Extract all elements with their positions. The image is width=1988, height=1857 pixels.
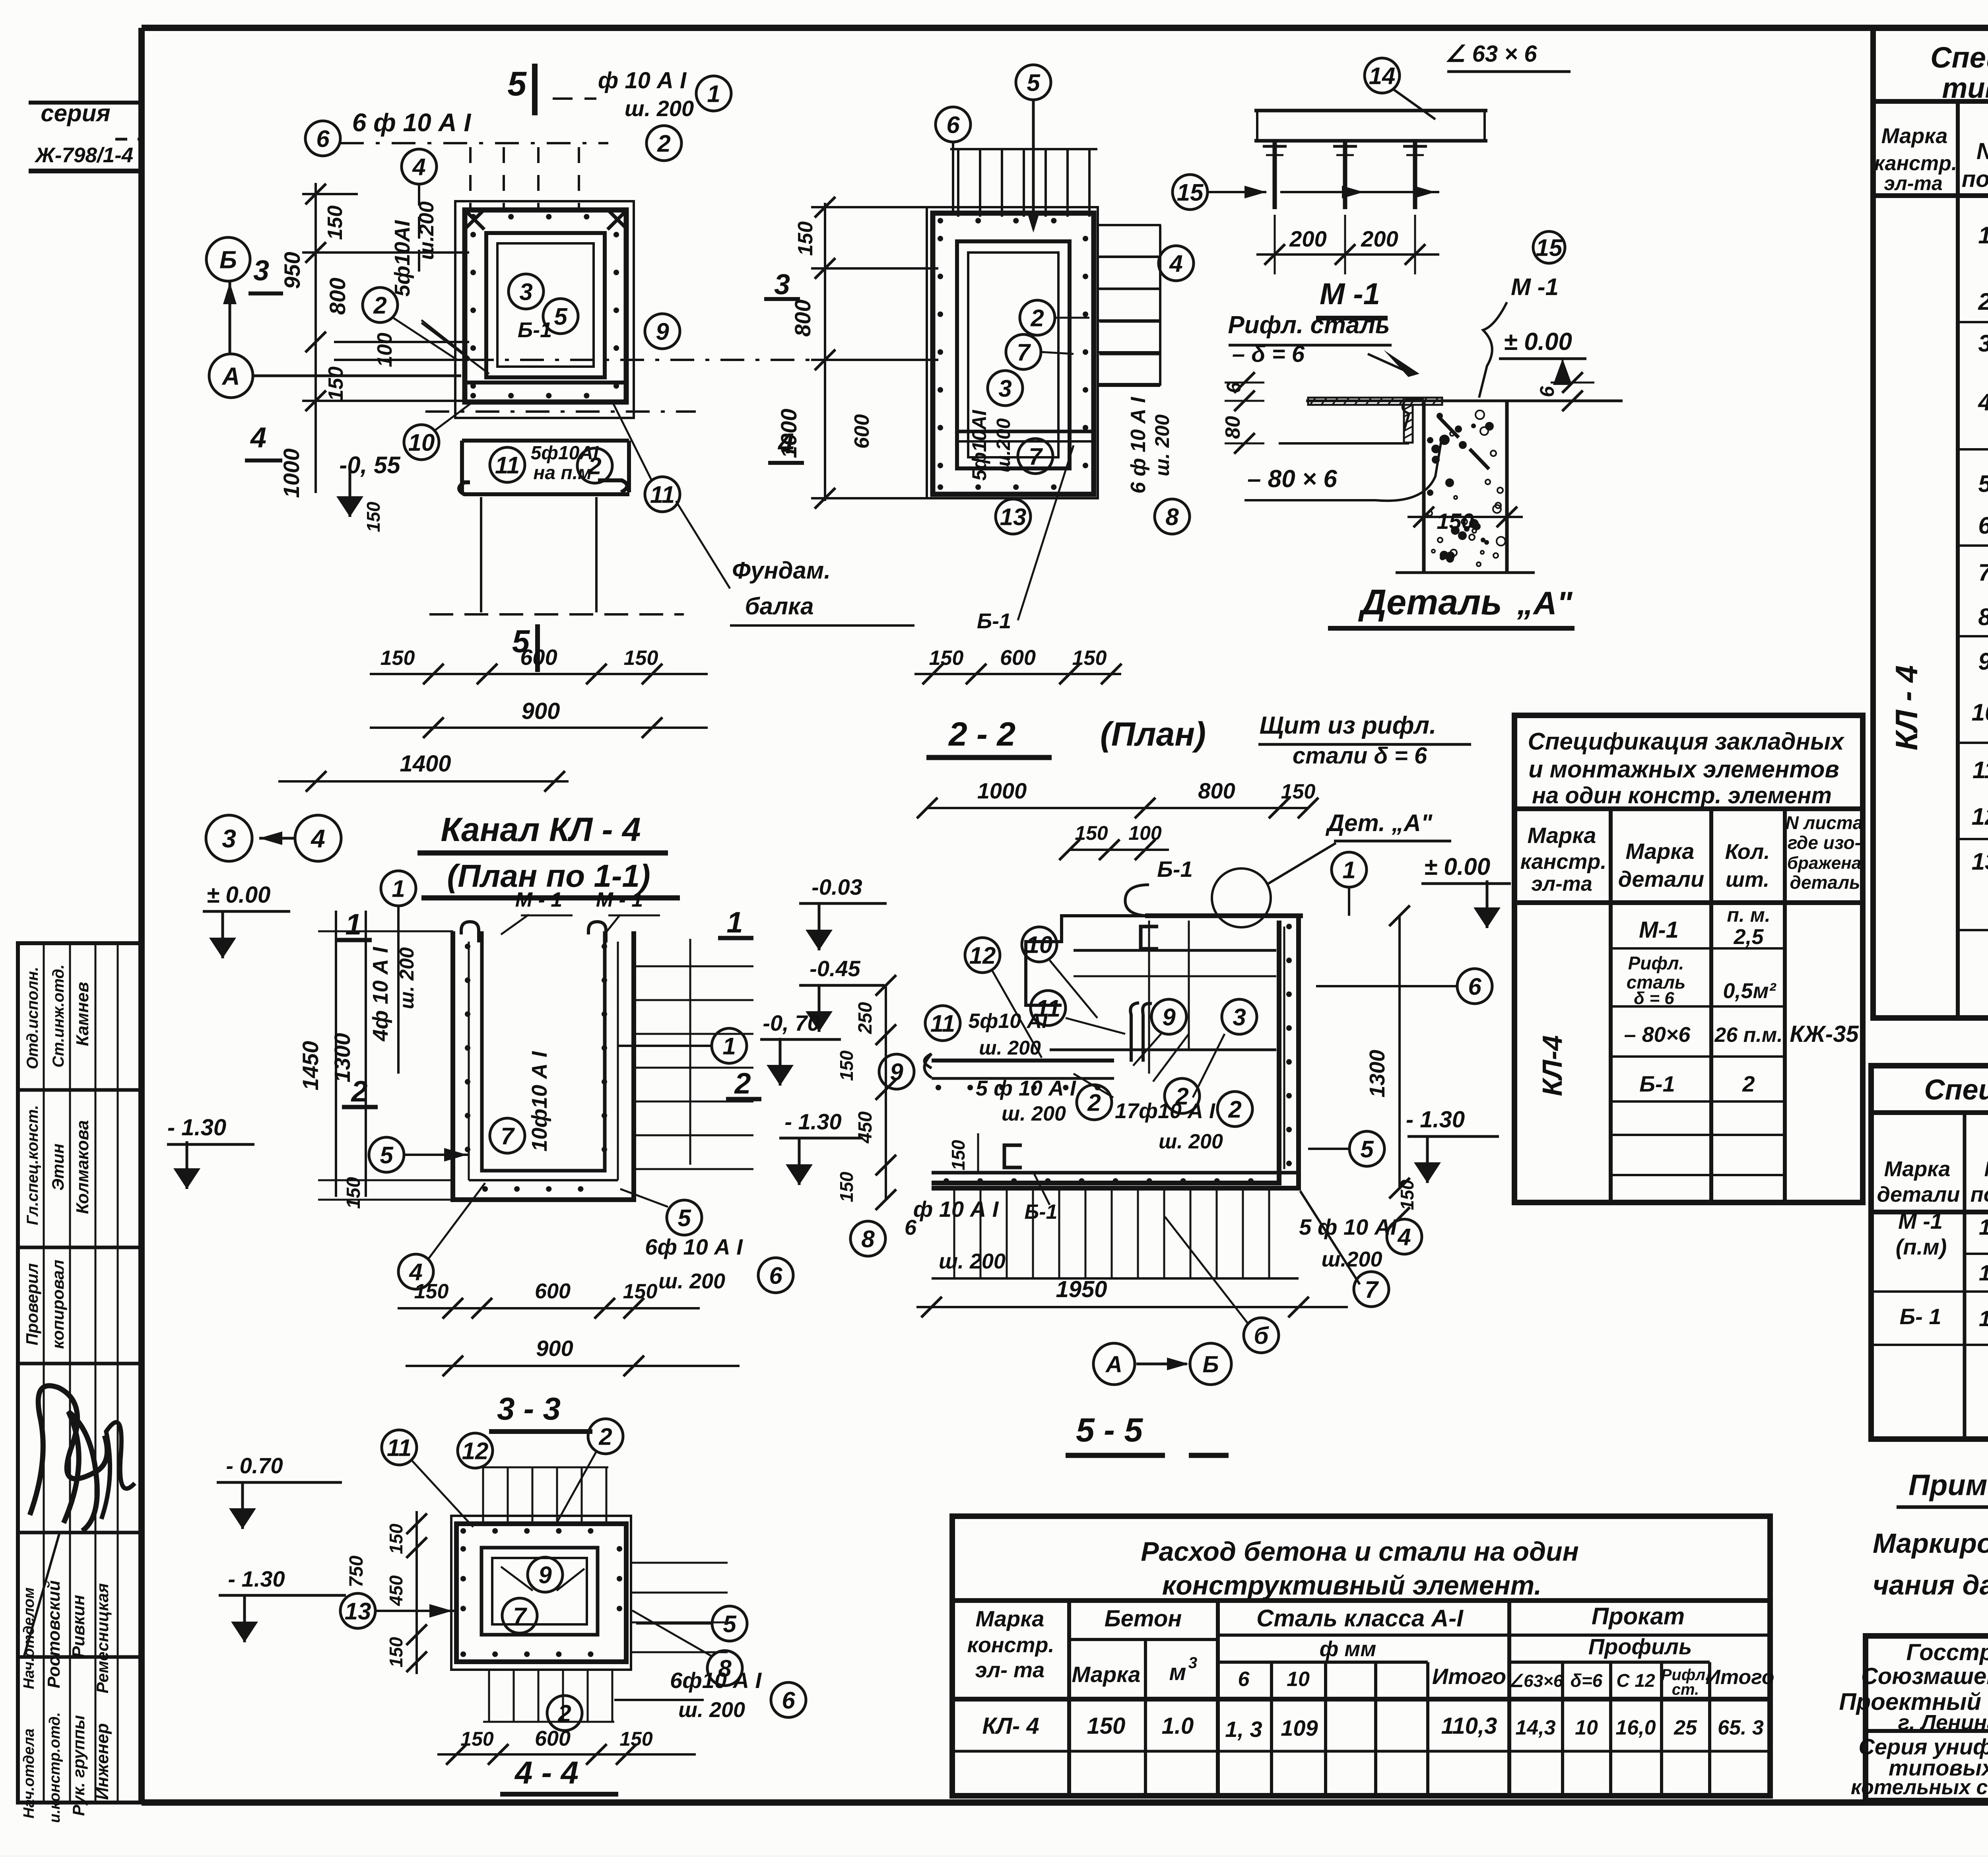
svg-text:– 80×6: – 80×6 bbox=[1624, 1023, 1691, 1047]
svg-text:КЛ- 4: КЛ- 4 bbox=[982, 1713, 1039, 1739]
M1 dims 200 200 bbox=[1256, 253, 1439, 256]
svg-text:200: 200 bbox=[1361, 226, 1398, 251]
svg-text:Проверил: Проверил bbox=[23, 1263, 41, 1346]
left margin series label bbox=[29, 101, 142, 105]
comb above box bbox=[482, 1467, 484, 1523]
svg-text:на один констр. элемент: на один констр. элемент bbox=[1532, 783, 1832, 808]
svg-text:Канал КЛ - 4: Канал КЛ - 4 bbox=[441, 811, 641, 848]
svg-text:Союзмашетройпроект,: Союзмашетройпроект, bbox=[1861, 1663, 1988, 1689]
svg-text:Б- 1: Б- 1 bbox=[1900, 1304, 1941, 1329]
svg-text:Б-1: Б-1 bbox=[1639, 1071, 1675, 1096]
svg-text:5ф10АI: 5ф10АI bbox=[390, 220, 414, 297]
svg-text:чания даны на листах КЖ -: чания даны на листах КЖ - 3, 4, 5 bbox=[1873, 1570, 1988, 1601]
svg-text:2: 2 bbox=[588, 453, 601, 480]
svg-text:7: 7 bbox=[1978, 559, 1988, 586]
svg-text:δ = 6: δ = 6 bbox=[1634, 989, 1674, 1008]
svg-text:6: 6 bbox=[316, 126, 330, 152]
svg-text:3: 3 bbox=[1233, 1004, 1246, 1031]
svg-text:Прокат: Прокат bbox=[1592, 1603, 1685, 1630]
svg-text:Госстрой СССР: Госстрой СССР bbox=[1906, 1639, 1988, 1665]
svg-text:5: 5 bbox=[723, 1611, 737, 1638]
svg-text:Спецификация стали на один: Спецификация стали на один конструк- bbox=[1930, 41, 1988, 74]
svg-text:Марка: Марка bbox=[976, 1606, 1044, 1631]
svg-text:Этин: Этин bbox=[49, 1144, 67, 1191]
svg-text:(п.м): (п.м) bbox=[1896, 1234, 1947, 1259]
svg-text:150: 150 bbox=[836, 1171, 857, 1202]
svg-text:12: 12 bbox=[969, 942, 996, 969]
svg-text:1: 1 bbox=[707, 81, 720, 107]
svg-text:δ=6: δ=6 bbox=[1571, 1670, 1603, 1691]
concrete pier with texture bbox=[1424, 401, 1507, 573]
svg-text:детали: детали bbox=[1618, 866, 1704, 892]
svg-text:1: 1 bbox=[1342, 857, 1355, 884]
svg-text:Инженер: Инженер bbox=[93, 1723, 112, 1800]
svg-text:2 - 2: 2 - 2 bbox=[948, 715, 1015, 753]
svg-text:150: 150 bbox=[619, 1728, 653, 1750]
svg-text:7: 7 bbox=[1365, 1276, 1379, 1303]
svg-text:4: 4 bbox=[1169, 251, 1182, 277]
axis circles Б and А of D1 bbox=[206, 237, 250, 281]
svg-text:1300: 1300 bbox=[1365, 1050, 1389, 1097]
svg-text:15: 15 bbox=[1536, 235, 1563, 261]
svg-text:Примечания:: Примечания: bbox=[1908, 1469, 1988, 1502]
excavation outline D2 bbox=[927, 207, 1098, 498]
svg-text:2: 2 bbox=[598, 1424, 612, 1450]
svg-text:16,0: 16,0 bbox=[1615, 1716, 1656, 1739]
svg-text:Марка: Марка bbox=[1072, 1662, 1141, 1687]
svg-text:-0.45: -0.45 bbox=[810, 956, 860, 981]
svg-text:Фундам.: Фундам. bbox=[732, 557, 831, 584]
footing below pier bbox=[1396, 571, 1535, 574]
svg-text:Итого: Итого bbox=[1706, 1666, 1774, 1689]
svg-text:1000: 1000 bbox=[279, 449, 304, 498]
plate bbox=[1254, 109, 1487, 113]
leader lines D6 bbox=[992, 970, 1042, 1058]
label 6ф10АI with circle 6 bbox=[305, 121, 340, 156]
svg-text:5ф10АI: 5ф10АI bbox=[968, 410, 990, 481]
svg-text:150: 150 bbox=[324, 206, 347, 240]
svg-text:- 1.30: - 1.30 bbox=[228, 1566, 285, 1591]
svg-text:- 0.70: - 0.70 bbox=[226, 1453, 283, 1478]
svg-text:12: 12 bbox=[462, 1438, 489, 1465]
table: embedded and mounting elements spec bbox=[1514, 715, 1863, 1202]
svg-text:14,3: 14,3 bbox=[1515, 1716, 1555, 1739]
svg-text:Б: Б bbox=[1202, 1352, 1219, 1377]
svg-text:Кол.: Кол. bbox=[1725, 840, 1770, 864]
svg-text:14: 14 bbox=[1369, 63, 1396, 89]
svg-text:стали δ = 6: стали δ = 6 bbox=[1293, 743, 1427, 769]
svg-text:600: 600 bbox=[535, 1279, 571, 1303]
svg-text:N листа: N листа bbox=[1786, 812, 1863, 833]
svg-text:1400: 1400 bbox=[400, 751, 451, 777]
svg-text:3 - 3: 3 - 3 bbox=[497, 1391, 561, 1426]
svg-text:Б-1: Б-1 bbox=[1157, 857, 1192, 882]
svg-text:- 1.30: - 1.30 bbox=[167, 1115, 226, 1140]
svg-text:Итого: Итого bbox=[1432, 1664, 1506, 1689]
svg-text:150: 150 bbox=[1397, 1179, 1417, 1210]
svg-text:Ривкин: Ривкин bbox=[69, 1595, 88, 1658]
svg-text:6: 6 bbox=[1468, 973, 1481, 1000]
svg-text:4: 4 bbox=[250, 422, 266, 454]
svg-text:г. Ленинград 1967г: г. Ленинград 1967г bbox=[1898, 1711, 1988, 1735]
svg-text:950: 950 bbox=[280, 252, 305, 289]
svg-text:Гл.спец.конст.: Гл.спец.конст. bbox=[24, 1105, 41, 1225]
svg-text:6: 6 bbox=[782, 1687, 795, 1714]
svg-text:± 0.00: ± 0.00 bbox=[1424, 853, 1490, 880]
svg-text:600: 600 bbox=[520, 645, 557, 670]
svg-text:9: 9 bbox=[890, 1059, 903, 1086]
vertical hooks near center bbox=[1130, 1003, 1152, 1062]
svg-text:шт.: шт. bbox=[1726, 868, 1769, 892]
svg-text:14: 14 bbox=[1979, 1214, 1988, 1239]
dims left of D1 bbox=[315, 183, 317, 493]
svg-text:Марка: Марка bbox=[1881, 124, 1948, 148]
svg-text:∠63×6: ∠63×6 bbox=[1508, 1671, 1563, 1691]
svg-text:3: 3 bbox=[774, 269, 790, 301]
svg-text:15: 15 bbox=[1979, 1260, 1988, 1285]
svg-text:11: 11 bbox=[650, 482, 675, 508]
svg-text:600: 600 bbox=[1000, 646, 1036, 670]
svg-text:∠ 63 × 6: ∠ 63 × 6 bbox=[1445, 41, 1538, 67]
svg-text:„А": „А" bbox=[1516, 585, 1573, 622]
lower grid below beam bbox=[480, 497, 482, 612]
svg-text:6: 6 bbox=[769, 1263, 782, 1289]
svg-text:6 ф 10 А I: 6 ф 10 А I bbox=[352, 108, 472, 137]
svg-text:150: 150 bbox=[386, 1523, 406, 1554]
svg-text:Спецификация стали на одну зак: Спецификация стали на одну закладную дет… bbox=[1924, 1074, 1988, 1106]
svg-text:17ф10 А I: 17ф10 А I bbox=[1115, 1099, 1215, 1123]
svg-text:11: 11 bbox=[495, 452, 520, 479]
svg-text:конструктивный элемент.: конструктивный элемент. bbox=[1162, 1570, 1541, 1601]
svg-text:серия: серия bbox=[41, 100, 110, 126]
svg-text:Колмакова: Колмакова bbox=[73, 1120, 92, 1214]
svg-text:5: 5 bbox=[554, 303, 568, 330]
bottom dims D7 bbox=[437, 1753, 696, 1756]
svg-text:детали: детали bbox=[1877, 1183, 1960, 1206]
svg-text:Б-1: Б-1 bbox=[977, 609, 1011, 633]
svg-text:11: 11 bbox=[930, 1010, 955, 1037]
svg-text:16: 16 bbox=[1979, 1306, 1988, 1331]
svg-text:ш.200: ш.200 bbox=[1321, 1247, 1382, 1271]
svg-text:150: 150 bbox=[381, 647, 415, 670]
svg-text:5: 5 bbox=[678, 1205, 691, 1232]
dims left of D2 bbox=[824, 203, 826, 501]
svg-text:5: 5 bbox=[1978, 470, 1988, 497]
svg-text:канстр.: канстр. bbox=[1874, 152, 1957, 175]
svg-text:2,5: 2,5 bbox=[1733, 925, 1764, 949]
svg-text:150: 150 bbox=[386, 1637, 406, 1667]
svg-text:3: 3 bbox=[222, 824, 236, 853]
svg-text:где изо-: где изо- bbox=[1788, 832, 1861, 853]
svg-text:2: 2 bbox=[373, 292, 386, 319]
svg-text:балка: балка bbox=[745, 593, 813, 620]
svg-text:N: N bbox=[1976, 138, 1988, 164]
svg-text:Рук. группы: Рук. группы bbox=[69, 1715, 88, 1816]
clamp X marks D1 corners bbox=[464, 210, 484, 229]
svg-text:N: N bbox=[1984, 1157, 1988, 1181]
svg-text:(План): (План) bbox=[1100, 715, 1206, 753]
svg-text:10: 10 bbox=[1287, 1668, 1310, 1691]
svg-text:1000: 1000 bbox=[977, 778, 1027, 803]
formwork box walls bbox=[465, 210, 626, 402]
svg-text:-0.03: -0.03 bbox=[812, 874, 862, 899]
svg-text:Б-1: Б-1 bbox=[518, 318, 552, 342]
svg-text:9: 9 bbox=[1162, 1004, 1176, 1031]
svg-text:7: 7 bbox=[1029, 443, 1043, 470]
beam Б-1 band left bbox=[932, 1059, 1114, 1063]
svg-text:11: 11 bbox=[1972, 757, 1988, 783]
svg-text:КЛ - 4: КЛ - 4 bbox=[1889, 665, 1924, 750]
svg-text:150: 150 bbox=[1087, 1713, 1126, 1739]
svg-text:6: 6 bbox=[946, 112, 960, 138]
svg-text:9: 9 bbox=[1978, 648, 1988, 675]
svg-text:2: 2 bbox=[1087, 1090, 1101, 1116]
svg-text:150: 150 bbox=[363, 501, 384, 532]
svg-text:80: 80 bbox=[1221, 416, 1244, 439]
bottom comb D7 bbox=[488, 1670, 490, 1722]
svg-text:15: 15 bbox=[1177, 179, 1204, 206]
svg-text:4: 4 bbox=[412, 154, 425, 181]
svg-text:7: 7 bbox=[501, 1123, 515, 1150]
svg-text:900: 900 bbox=[522, 698, 560, 724]
svg-text:М - 1: М - 1 bbox=[596, 888, 643, 911]
svg-text:1: 1 bbox=[345, 908, 361, 941]
svg-text:КЛ-4: КЛ-4 bbox=[1537, 1035, 1568, 1096]
top comb of vertical lines (rebar) bbox=[957, 149, 959, 217]
svg-text:13: 13 bbox=[1972, 848, 1988, 875]
svg-text:± 0.00: ± 0.00 bbox=[207, 882, 271, 908]
svg-text:8: 8 bbox=[861, 1226, 875, 1253]
svg-text:12: 12 bbox=[1972, 803, 1988, 830]
svg-text:110,3: 110,3 bbox=[1441, 1713, 1497, 1739]
svg-text:Отд.исполн.: Отд.исполн. bbox=[24, 967, 41, 1069]
svg-text:3: 3 bbox=[1978, 330, 1988, 357]
circles and labels D2 bbox=[1159, 246, 1194, 281]
svg-text:поз.: поз. bbox=[1971, 1183, 1988, 1206]
svg-text:КЖ-35: КЖ-35 bbox=[1790, 1021, 1859, 1047]
svg-text:Бетон: Бетон bbox=[1105, 1606, 1182, 1632]
svg-text:- 1.30: - 1.30 bbox=[784, 1109, 841, 1134]
svg-text:Ж-798/1-4: Ж-798/1-4 bbox=[34, 144, 134, 167]
svg-text:1450: 1450 bbox=[298, 1041, 323, 1091]
svg-text:ш. 200: ш. 200 bbox=[625, 96, 694, 121]
svg-text:Сталь класса А-I: Сталь класса А-I bbox=[1256, 1605, 1464, 1632]
axis dash lines vertical bbox=[469, 147, 472, 211]
svg-text:4 - 4: 4 - 4 bbox=[514, 1755, 579, 1790]
svg-text:Ростовский: Ростовский bbox=[44, 1580, 64, 1688]
bottom dims D5 bbox=[398, 1307, 700, 1309]
bottom band and dash axis bbox=[465, 381, 626, 385]
svg-text:4ф 10 А I: 4ф 10 А I bbox=[369, 947, 392, 1042]
svg-text:150: 150 bbox=[343, 1177, 364, 1209]
drawing D2: plan at section, top middle bbox=[936, 107, 971, 142]
svg-text:10: 10 bbox=[408, 429, 435, 456]
table: concrete and steel consumption bbox=[952, 1516, 1770, 1796]
svg-text:5: 5 bbox=[507, 65, 527, 103]
svg-text:ш. 200: ш. 200 bbox=[1002, 1102, 1066, 1125]
svg-text:п. м.: п. м. bbox=[1727, 904, 1770, 926]
svg-text:эл-та: эл-та bbox=[1531, 872, 1592, 895]
svg-text:Рифл.: Рифл. bbox=[1628, 953, 1684, 973]
svg-text:200: 200 bbox=[1289, 226, 1326, 251]
svg-text:Ремесницкая: Ремесницкая bbox=[93, 1583, 112, 1693]
svg-text:1.0: 1.0 bbox=[1162, 1713, 1194, 1739]
svg-text:900: 900 bbox=[536, 1336, 573, 1361]
hatch steps right of D7 bbox=[632, 1562, 728, 1564]
bottom rebar comb D6 bbox=[953, 1189, 955, 1278]
svg-text:А: А bbox=[221, 363, 240, 390]
svg-text:5: 5 bbox=[1360, 1136, 1374, 1163]
svg-text:3: 3 bbox=[998, 375, 1011, 402]
svg-text:М-1: М-1 bbox=[1639, 917, 1679, 943]
M-1 hooks at wall tops bbox=[461, 922, 479, 942]
svg-text:10: 10 bbox=[1026, 932, 1053, 958]
svg-text:5: 5 bbox=[1027, 70, 1041, 96]
svg-text:2: 2 bbox=[734, 1067, 751, 1100]
inner horizontal bar bbox=[958, 430, 1091, 433]
svg-text:– 80 × 6: – 80 × 6 bbox=[1247, 465, 1337, 493]
svg-text:Ст.инж.отд.: Ст.инж.отд. bbox=[50, 964, 67, 1068]
svg-text:150: 150 bbox=[929, 647, 964, 670]
angle under plate bbox=[1404, 405, 1413, 443]
svg-text:2: 2 bbox=[1228, 1096, 1241, 1123]
svg-text:2: 2 bbox=[1030, 305, 1044, 332]
svg-text:8: 8 bbox=[1165, 504, 1179, 530]
svg-text:10: 10 bbox=[1575, 1716, 1598, 1739]
svg-text:ш. 200: ш. 200 bbox=[1159, 1130, 1223, 1153]
svg-text:150: 150 bbox=[794, 221, 817, 256]
svg-text:б: б bbox=[1254, 1323, 1269, 1349]
svg-text:Марка: Марка bbox=[1626, 839, 1695, 864]
svg-text:150: 150 bbox=[948, 1140, 969, 1170]
svg-text:150: 150 bbox=[624, 647, 658, 670]
svg-text:Дет. „А": Дет. „А" bbox=[1325, 810, 1433, 836]
svg-text:Спецификация закладных: Спецификация закладных bbox=[1528, 728, 1845, 755]
formwork walls D2 bbox=[933, 213, 1094, 494]
svg-text:ст.: ст. bbox=[1672, 1681, 1699, 1698]
svg-text:150: 150 bbox=[623, 1280, 658, 1303]
svg-text:6: 6 bbox=[1238, 1668, 1250, 1691]
svg-text:Деталь: Деталь bbox=[1358, 583, 1502, 622]
svg-text:6: 6 bbox=[1978, 512, 1988, 539]
svg-text:ф 10 А I: ф 10 А I bbox=[913, 1197, 999, 1222]
svg-text:800: 800 bbox=[325, 278, 350, 315]
svg-text:5 ф 10 АI: 5 ф 10 АI bbox=[1299, 1214, 1397, 1239]
svg-text:600: 600 bbox=[850, 414, 874, 449]
svg-text:5ф10 АI: 5ф10 АI bbox=[968, 1010, 1048, 1033]
svg-text:эл-та: эл-та bbox=[1884, 172, 1943, 194]
svg-text:2: 2 bbox=[1742, 1071, 1755, 1096]
svg-text:3: 3 bbox=[1188, 1654, 1197, 1672]
svg-text:А: А bbox=[1105, 1352, 1122, 1377]
svg-text:Б: Б bbox=[219, 246, 237, 274]
svg-text:4: 4 bbox=[1397, 1224, 1411, 1251]
svg-text:7: 7 bbox=[1017, 339, 1031, 366]
title block bbox=[1866, 1636, 1988, 1801]
svg-text:1: 1 bbox=[722, 1033, 736, 1060]
svg-text:150: 150 bbox=[414, 1280, 449, 1303]
table: steel specification per structural element bbox=[1873, 28, 1988, 1018]
left dims D5 bbox=[335, 911, 337, 1197]
svg-text:5 ф 10 А I: 5 ф 10 А I bbox=[976, 1076, 1076, 1100]
svg-text:1: 1 bbox=[1978, 222, 1988, 249]
plan walls D6 bbox=[1145, 913, 1303, 918]
svg-text:4: 4 bbox=[310, 824, 325, 853]
bottom dims D2 bbox=[914, 673, 1121, 675]
svg-text:ш. 200: ш. 200 bbox=[979, 1037, 1041, 1059]
svg-text:Нач.отдела: Нач.отдела bbox=[21, 1729, 37, 1818]
svg-text:Профиль: Профиль bbox=[1588, 1634, 1692, 1659]
svg-text:С 12: С 12 bbox=[1616, 1670, 1655, 1691]
svg-text:750: 750 bbox=[346, 1556, 367, 1587]
svg-text:котельных с котлами ДКВР: котельных с котлами ДКВР bbox=[1851, 1776, 1988, 1799]
svg-text:канстр.: канстр. bbox=[1520, 850, 1607, 874]
svg-text:М -1: М -1 bbox=[1511, 274, 1559, 300]
svg-text:поз.: поз. bbox=[1962, 166, 1988, 192]
svg-text:6ф 10 А I: 6ф 10 А I bbox=[645, 1234, 743, 1259]
svg-text:-0, 70: -0, 70 bbox=[763, 1010, 819, 1035]
svg-text:и.констр.отд.: и.констр.отд. bbox=[47, 1712, 63, 1823]
svg-text:10: 10 bbox=[1972, 699, 1988, 726]
svg-text:1: 1 bbox=[726, 906, 743, 939]
excavation and box D7 bbox=[451, 1516, 631, 1670]
svg-text:- 1.30: - 1.30 bbox=[1406, 1107, 1465, 1132]
top dim row D6 bbox=[927, 807, 1308, 809]
svg-text:450: 450 bbox=[386, 1575, 406, 1606]
leader lines from 5,6 into box bbox=[1027, 212, 1040, 233]
svg-text:150: 150 bbox=[836, 1050, 857, 1081]
svg-text:450: 450 bbox=[855, 1111, 876, 1144]
svg-text:ш. 200: ш. 200 bbox=[939, 1249, 1006, 1273]
svg-text:109: 109 bbox=[1281, 1715, 1318, 1740]
svg-text:150: 150 bbox=[1437, 509, 1474, 534]
svg-text:Маркировочный план фундамент: Маркировочный план фундаментов и общие п… bbox=[1873, 1528, 1988, 1559]
svg-text:1300: 1300 bbox=[330, 1033, 355, 1083]
svg-text:Марка: Марка bbox=[1528, 823, 1596, 848]
svg-text:ш. 200: ш. 200 bbox=[396, 947, 418, 1009]
svg-text:констр.: констр. bbox=[967, 1633, 1054, 1657]
svg-text:эл- та: эл- та bbox=[975, 1658, 1044, 1682]
svg-text:6: 6 bbox=[1536, 386, 1558, 397]
floor plate line bbox=[1306, 400, 1623, 402]
svg-text:6ф10 А I: 6ф10 А I bbox=[670, 1668, 762, 1693]
circles D6 bbox=[965, 938, 1000, 973]
svg-text:Камнев: Камнев bbox=[73, 982, 92, 1046]
svg-text:100: 100 bbox=[373, 333, 396, 367]
svg-text:деталь: деталь bbox=[1790, 872, 1860, 893]
svg-text:9: 9 bbox=[656, 319, 669, 345]
sheet border frame bbox=[142, 25, 1988, 31]
svg-text:1, 3: 1, 3 bbox=[1225, 1717, 1262, 1742]
svg-text:М - 1: М - 1 bbox=[515, 888, 562, 911]
shield step outline top-left bbox=[1026, 916, 1145, 1005]
stepped hatch right of D2 bbox=[1098, 224, 1161, 226]
svg-text:ш.200: ш.200 bbox=[993, 418, 1014, 472]
table: steel spec per embedded detail bbox=[1871, 1066, 1988, 1439]
svg-text:1950: 1950 bbox=[1056, 1276, 1107, 1302]
svg-text:М -1: М -1 bbox=[1898, 1208, 1943, 1233]
riffled plate band bbox=[1308, 398, 1442, 405]
svg-text:10ф10 А I: 10ф10 А I bbox=[528, 1051, 551, 1152]
excavation outline bbox=[455, 201, 634, 418]
svg-text:ф 10 А I: ф 10 А I bbox=[598, 68, 687, 93]
circles 3 5 9 bbox=[509, 274, 544, 309]
channel symbol С bbox=[1141, 927, 1158, 949]
svg-text:5: 5 bbox=[380, 1142, 394, 1169]
left stamp table bbox=[18, 943, 142, 1803]
concrete dots bbox=[1470, 520, 1478, 528]
circles D5 bbox=[712, 1028, 747, 1063]
